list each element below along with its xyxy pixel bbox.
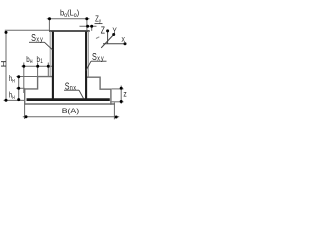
svg-text:bн: bн xyxy=(26,54,32,65)
svg-text:Sxy: Sxy xyxy=(92,51,104,63)
svg-text:Snx: Snx xyxy=(65,80,77,92)
svg-text:b1: b1 xyxy=(37,54,43,65)
svg-text:hн: hн xyxy=(9,90,15,102)
svg-text:Z: Z xyxy=(101,24,105,36)
svg-text:X: X xyxy=(121,36,125,44)
svg-text:H: H xyxy=(0,60,8,67)
svg-text:Y: Y xyxy=(112,26,116,36)
svg-text:z: z xyxy=(123,89,127,99)
svg-text:B(A): B(A) xyxy=(62,108,79,115)
svg-text:bo(Lo): bo(Lo) xyxy=(60,8,80,19)
svg-text:hн: hн xyxy=(9,73,15,85)
svg-text:Sxy: Sxy xyxy=(31,32,43,44)
